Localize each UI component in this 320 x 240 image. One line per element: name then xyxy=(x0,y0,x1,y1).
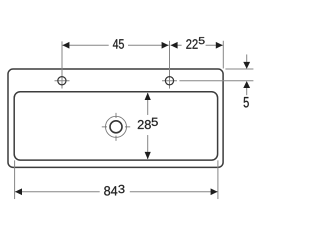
wire: extension line bottom-left inner edge (vertical) xyxy=(14,160,16,199)
wire: extension line top edge level (horizontal) xyxy=(225,68,253,70)
dimension 84.3: line xyxy=(15,188,218,195)
wire: extension line tap-hole level (horizontal) xyxy=(179,80,253,82)
dimension 22.5: superscript "5" xyxy=(199,37,205,44)
wire: extension line right outer edge (vertical) xyxy=(222,41,224,69)
dimension 22.5: label "22" xyxy=(186,39,197,49)
outer basin outline xyxy=(8,69,223,167)
dimension 5: label "5" xyxy=(244,97,249,107)
right tap hole xyxy=(162,77,177,85)
dimension 28.5: line xyxy=(145,93,151,160)
drain hole xyxy=(102,113,130,141)
wire: extension line left tap hole centerline (vertical) xyxy=(61,41,63,88)
dimension 45: line xyxy=(62,42,168,49)
wire: extension line bottom-right inner edge (vertical) xyxy=(217,160,219,199)
inner basin bowl outline xyxy=(14,92,217,160)
dimension 28.5: superscript "5" xyxy=(152,118,158,126)
dimension 45: label "45" xyxy=(113,39,124,49)
dimension 28.5: label "28" xyxy=(138,120,151,129)
left tap hole xyxy=(55,77,70,85)
dimension 22.5: line xyxy=(171,42,223,49)
dimension 84.3: superscript "3" xyxy=(118,185,124,193)
dimension 84.3: label "84" xyxy=(104,186,117,195)
dimension 5: arrows xyxy=(243,54,250,95)
wire: extension line right tap hole centerline (vertical) xyxy=(169,41,171,89)
